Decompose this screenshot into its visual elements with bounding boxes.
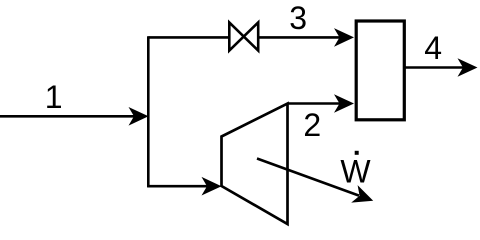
wire stream 2 from compressor to mixing chamber [288,102,341,105]
wire stream 3 from valve to mixing chamber [257,36,340,39]
svg-text:1: 1 [45,79,63,115]
svg-text:W: W [340,153,371,189]
valve (throttle) bowtie [229,22,258,50]
arrowhead stream 4 [458,58,478,77]
wire outlet stream 4 [405,66,464,69]
svg-text:4: 4 [424,30,442,66]
arrowhead into compressor inlet [202,177,222,196]
wire bottom branch to compressor inlet [147,185,207,188]
arrowhead stream 3 [334,28,354,47]
arrowhead stream 2 [334,94,354,113]
svg-text:2: 2 [303,107,321,143]
arrowhead stream 1 into junction [129,107,149,126]
wire inlet stream 1 [0,115,134,118]
mixing chamber box [356,21,404,120]
arrowhead work Wdot [351,185,376,209]
svg-text:3: 3 [289,0,307,36]
wire junction vertical riser [147,36,150,187]
Wdot overdot [355,151,359,155]
compressor/turbine trapezoid [222,104,288,225]
work shaft arrow Wdot [257,159,359,196]
wire top branch to valve [148,36,230,39]
